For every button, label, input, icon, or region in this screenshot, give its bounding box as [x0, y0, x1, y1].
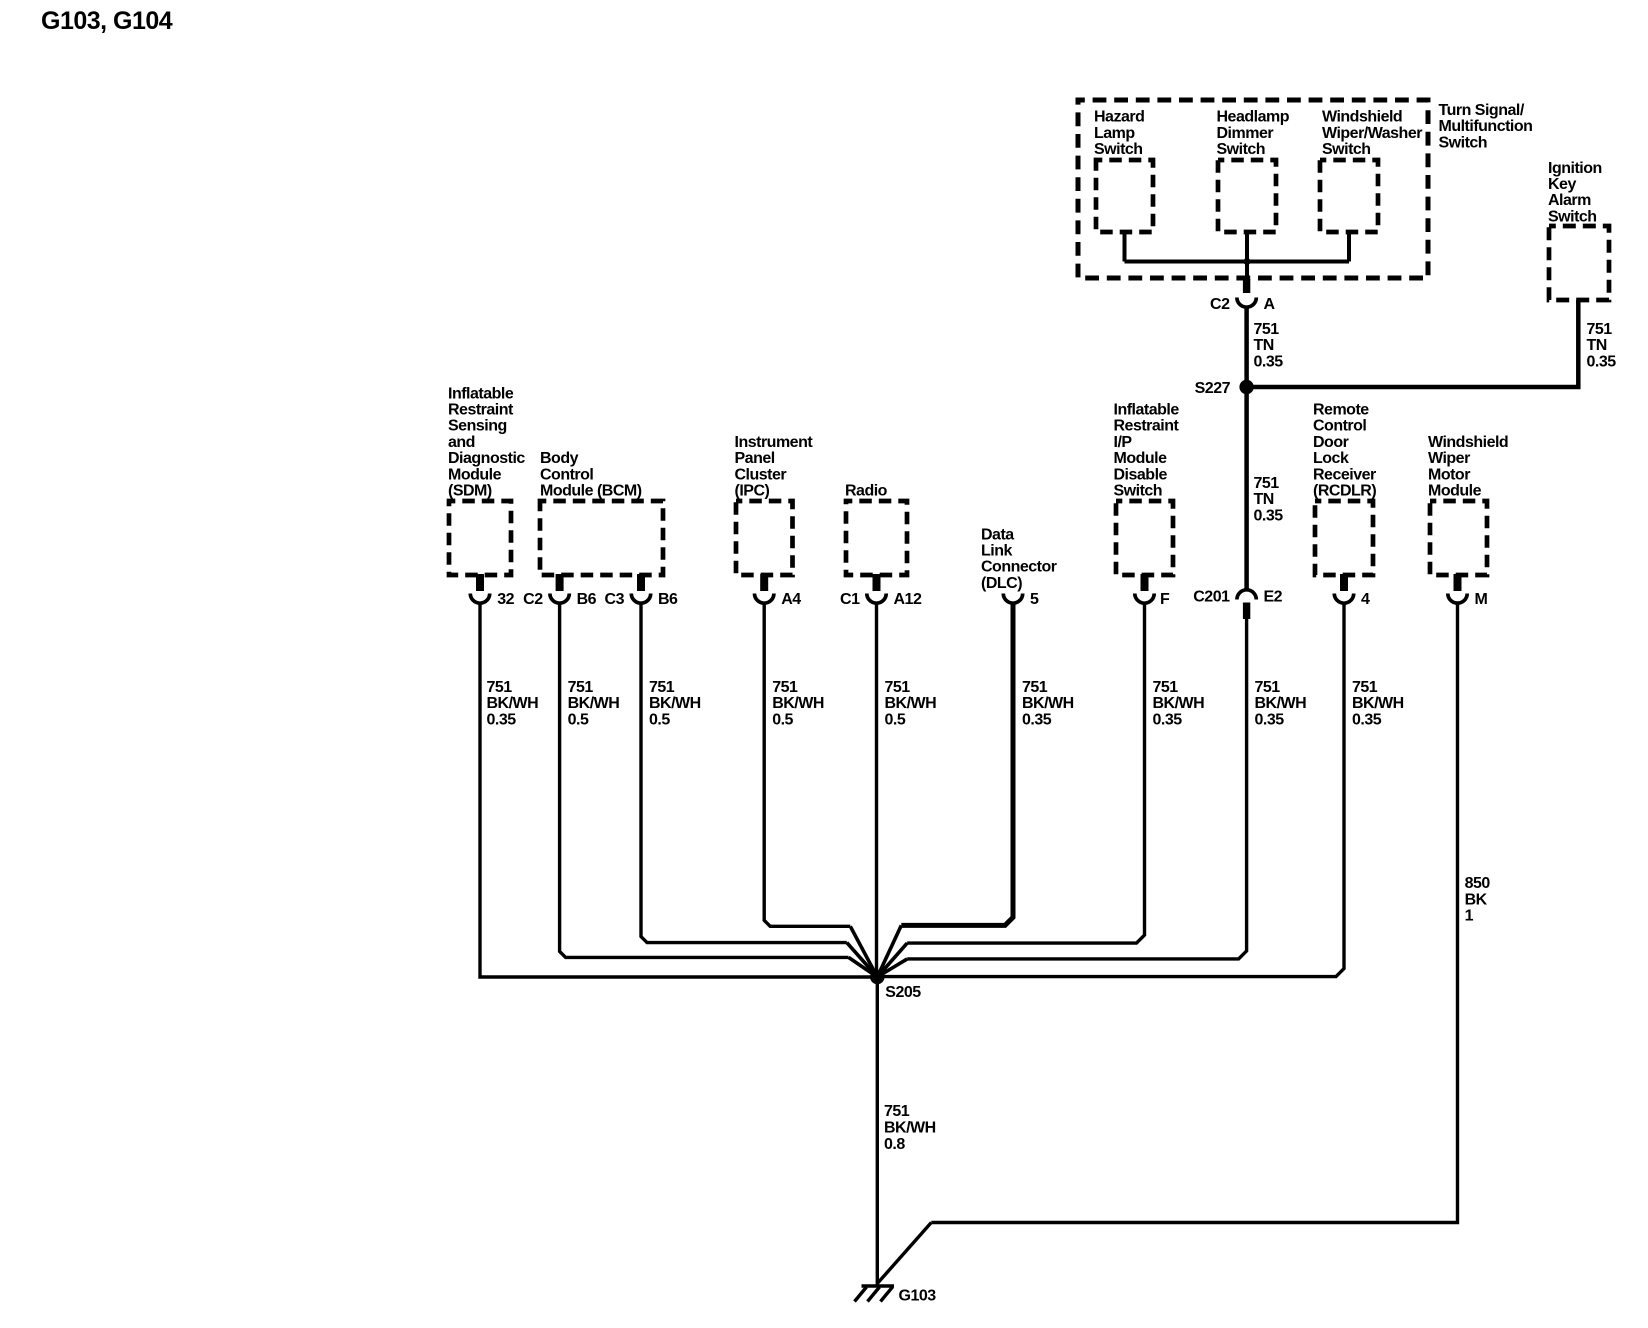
svg-text:(RCDLR): (RCDLR) [1313, 483, 1376, 500]
ground G103 hatch 2 [868, 1287, 880, 1302]
wire diagonal BCM C2 into S205 [849, 957, 878, 977]
svg-text:Key: Key [1548, 176, 1576, 193]
svg-text:Restraint: Restraint [1114, 418, 1180, 435]
svg-text:BK/WH: BK/WH [1255, 695, 1307, 712]
svg-text:Cluster: Cluster [735, 466, 787, 483]
connector C201 pin E2 stub [1243, 603, 1250, 620]
svg-text:C1: C1 [840, 591, 860, 608]
svg-text:751: 751 [1254, 475, 1280, 492]
wire hazard lamp switch to internal bus [1123, 232, 1127, 262]
svg-text:Switch: Switch [1322, 141, 1371, 158]
svg-text:Receiver: Receiver [1313, 466, 1376, 483]
svg-text:1: 1 [1465, 908, 1474, 925]
svg-text:Switch: Switch [1217, 141, 1266, 158]
svg-text:Panel: Panel [735, 450, 775, 467]
svg-text:Switch: Switch [1114, 483, 1163, 500]
switch assembly Turn Signal/Multifunction Switch box [1078, 100, 1428, 278]
svg-text:Inflatable: Inflatable [1114, 402, 1180, 419]
splice S205 [870, 970, 884, 984]
svg-text:Switch: Switch [1094, 141, 1143, 158]
svg-text:S227: S227 [1195, 380, 1231, 397]
wire 751 BK/WH Radio to S205 [875, 603, 878, 977]
svg-text:BK/WH: BK/WH [884, 1120, 936, 1137]
svg-text:Lamp: Lamp [1094, 125, 1135, 142]
svg-text:Instrument: Instrument [735, 434, 814, 451]
connector WWM pin M stub [1454, 574, 1462, 591]
svg-text:0.35: 0.35 [1255, 711, 1285, 728]
svg-text:Wiper: Wiper [1428, 450, 1470, 467]
connector BCM C2 pin B6 stub [556, 574, 564, 591]
svg-text:751: 751 [1255, 679, 1281, 696]
connector Radio C1 pin A12 stub [873, 574, 881, 591]
wire diagonal disable switch into S205 [877, 943, 907, 977]
svg-text:0.5: 0.5 [772, 711, 793, 728]
wire windshield wiper switch to internal bus [1347, 232, 1351, 262]
svg-text:0.35: 0.35 [1587, 353, 1617, 370]
svg-text:BK: BK [1465, 891, 1488, 908]
wire 751 BK/WH RCDLR to S205 [877, 603, 1344, 977]
module U1 SDM box [449, 501, 511, 575]
switch S4 Ignition Key Alarm Switch box [1549, 226, 1609, 300]
svg-text:C3: C3 [605, 591, 625, 608]
svg-text:BK/WH: BK/WH [885, 695, 937, 712]
connector IPC pin A4 cup [755, 594, 774, 604]
wire diagonal IPC into S205 [850, 926, 877, 977]
wire 751 BK/WH IPC to S205 [764, 603, 850, 926]
ground G103 hatch 3 [881, 1287, 893, 1302]
svg-text:850: 850 [1465, 875, 1491, 892]
switch S3 Windshield Wiper/Washer Switch box [1320, 160, 1378, 232]
wire S227 to ignition key alarm switch [1247, 300, 1579, 387]
wire internal bus horizontal [1125, 260, 1350, 264]
wire 751 BK/WH C201 to S205 [907, 619, 1246, 959]
svg-text:Alarm: Alarm [1548, 192, 1591, 209]
svg-text:751: 751 [1352, 679, 1378, 696]
svg-text:Link: Link [981, 543, 1012, 560]
svg-text:C201: C201 [1193, 589, 1230, 606]
svg-text:0.35: 0.35 [1254, 353, 1284, 370]
svg-text:BK/WH: BK/WH [568, 695, 620, 712]
svg-text:751: 751 [649, 679, 675, 696]
svg-text:Door: Door [1313, 434, 1349, 451]
splice S227 [1239, 380, 1253, 394]
wire 751 TN from C2-A to S227 [1244, 306, 1249, 387]
svg-text:G103, G104: G103, G104 [41, 7, 173, 35]
svg-text:Motor: Motor [1428, 466, 1470, 483]
svg-text:0.35: 0.35 [1022, 711, 1052, 728]
switch S2 Headlamp Dimmer Switch box [1218, 160, 1276, 232]
svg-text:A: A [1264, 296, 1276, 313]
wire 751 BK/WH BCM C2-B6 to S205 [560, 603, 849, 957]
svg-text:751: 751 [487, 679, 513, 696]
junction internal bus [1243, 258, 1250, 265]
connector IR disable switch pin F cup [1135, 594, 1154, 604]
svg-text:Headlamp: Headlamp [1217, 109, 1290, 126]
svg-text:751: 751 [1022, 679, 1048, 696]
svg-text:Lock: Lock [1313, 450, 1349, 467]
svg-text:A12: A12 [894, 591, 922, 608]
svg-text:S205: S205 [885, 984, 921, 1001]
svg-text:32: 32 [497, 591, 514, 608]
connector C2 pin A stub [1243, 279, 1250, 293]
svg-text:5: 5 [1030, 591, 1039, 608]
svg-text:BK/WH: BK/WH [1022, 695, 1074, 712]
wire 751 BK/WH disable switch to S205 [907, 603, 1144, 943]
svg-text:B6: B6 [658, 591, 678, 608]
svg-text:Remote: Remote [1313, 402, 1369, 419]
svg-text:4: 4 [1361, 591, 1370, 608]
svg-text:751: 751 [1587, 321, 1613, 338]
svg-text:B6: B6 [577, 591, 597, 608]
svg-text:0.35: 0.35 [1254, 507, 1284, 524]
svg-text:(SDM): (SDM) [448, 483, 492, 500]
svg-text:751: 751 [1254, 321, 1280, 338]
svg-text:Radio: Radio [845, 483, 888, 500]
svg-text:0.35: 0.35 [1352, 711, 1382, 728]
svg-text:Control: Control [1313, 418, 1366, 435]
svg-text:and: and [448, 434, 475, 451]
svg-text:TN: TN [1254, 491, 1274, 508]
module U4 Radio box [846, 501, 907, 575]
wire 751 BK/WH S205 to G103 [876, 977, 879, 1286]
svg-text:Dimmer: Dimmer [1217, 125, 1274, 142]
switch S1 Hazard Lamp Switch box [1096, 160, 1153, 232]
svg-text:Switch: Switch [1548, 208, 1597, 225]
connector Radio C1 pin A12 cup [867, 594, 886, 604]
connector BCM C3 pin B6 stub [637, 574, 645, 591]
connector DLC pin 5 cup [1003, 594, 1022, 604]
svg-text:E2: E2 [1264, 589, 1283, 606]
wire headlamp dimmer switch through junction to pin A [1245, 232, 1249, 281]
ground G103 hatch 1 [855, 1287, 867, 1302]
ground G103 bar [862, 1284, 895, 1287]
connector IR disable switch pin F stub [1141, 574, 1149, 591]
module U2 BCM box [540, 501, 663, 575]
switch S5 IR I/P Module Disable Switch box [1116, 501, 1173, 575]
module U5 RCDLR box [1315, 501, 1373, 575]
svg-text:Module (BCM): Module (BCM) [540, 483, 642, 500]
connector SDM pin 32 stub [476, 574, 484, 591]
svg-text:Wiper/Washer: Wiper/Washer [1322, 125, 1422, 142]
wire diagonal DLC into S205 [877, 925, 901, 977]
svg-text:Ignition: Ignition [1548, 160, 1602, 177]
wire 850 BK WWM to ground [931, 603, 1457, 1223]
svg-text:C2: C2 [523, 591, 543, 608]
svg-text:Windshield: Windshield [1322, 109, 1402, 126]
connector BCM C3 pin B6 cup [631, 594, 650, 604]
svg-text:Data: Data [981, 526, 1014, 543]
svg-text:0.5: 0.5 [649, 711, 670, 728]
svg-text:0.35: 0.35 [1153, 711, 1183, 728]
svg-text:BK/WH: BK/WH [487, 695, 539, 712]
wire diagonal BCM C3 into S205 [847, 943, 878, 977]
connector C2 pin A cup [1237, 298, 1256, 308]
connector BCM C2 pin B6 cup [550, 594, 569, 604]
svg-text:BK/WH: BK/WH [1352, 695, 1404, 712]
svg-text:M: M [1475, 591, 1488, 608]
svg-text:Body: Body [540, 450, 579, 467]
svg-text:0.35: 0.35 [487, 711, 517, 728]
svg-text:Restraint: Restraint [448, 402, 514, 419]
svg-text:(DLC): (DLC) [981, 575, 1022, 592]
svg-text:Multifunction: Multifunction [1439, 118, 1533, 135]
svg-text:Switch: Switch [1439, 134, 1488, 151]
svg-text:Module: Module [1114, 450, 1168, 467]
connector RCDLR pin 4 cup [1334, 594, 1353, 604]
svg-text:BK/WH: BK/WH [772, 695, 824, 712]
svg-text:Hazard: Hazard [1094, 109, 1144, 126]
svg-text:751: 751 [884, 1103, 910, 1120]
svg-text:BK/WH: BK/WH [1153, 695, 1205, 712]
svg-text:0.5: 0.5 [885, 711, 906, 728]
module U3 IPC box [736, 501, 793, 575]
wire diagonal 850 BK into G103 [877, 1223, 931, 1284]
svg-text:(IPC): (IPC) [735, 483, 770, 500]
svg-text:Connector: Connector [981, 559, 1057, 576]
svg-text:Turn Signal/: Turn Signal/ [1439, 102, 1525, 119]
svg-text:Diagnostic: Diagnostic [448, 450, 525, 467]
connector C201 pin E2 cup [1237, 590, 1256, 600]
connector RCDLR pin 4 stub [1340, 574, 1348, 591]
wire diagonal C201 into S205 [877, 959, 907, 977]
svg-text:Module: Module [1428, 483, 1482, 500]
connector SDM pin 32 cup [470, 594, 489, 604]
svg-text:G103: G103 [899, 1288, 937, 1305]
svg-text:Disable: Disable [1114, 466, 1168, 483]
svg-text:751: 751 [885, 679, 911, 696]
svg-text:TN: TN [1254, 337, 1274, 354]
wire 751 TN from S227 to C201 [1244, 394, 1249, 589]
svg-text:F: F [1160, 591, 1170, 608]
svg-text:Module: Module [448, 466, 502, 483]
svg-text:751: 751 [772, 679, 798, 696]
svg-text:C2: C2 [1210, 296, 1230, 313]
svg-text:Sensing: Sensing [448, 418, 507, 435]
module U6 Windshield Wiper Motor Module box [1430, 501, 1487, 575]
svg-text:A4: A4 [781, 591, 801, 608]
connector IPC pin A4 stub [760, 574, 768, 591]
svg-text:0.8: 0.8 [884, 1136, 905, 1153]
wire 751 BK/WH BCM C3-B6 to S205 [641, 603, 847, 943]
svg-text:751: 751 [1153, 679, 1179, 696]
svg-text:Inflatable: Inflatable [448, 385, 514, 402]
wire 751 BK/WH SDM to S205 [480, 603, 877, 977]
svg-text:Control: Control [540, 466, 593, 483]
svg-text:Windshield: Windshield [1428, 434, 1508, 451]
wire 751 BK/WH DLC to S205 [901, 603, 1013, 925]
svg-text:751: 751 [568, 679, 594, 696]
svg-text:TN: TN [1587, 337, 1607, 354]
svg-text:BK/WH: BK/WH [649, 695, 701, 712]
svg-text:I/P: I/P [1114, 434, 1133, 451]
svg-text:0.5: 0.5 [568, 711, 589, 728]
connector WWM pin M cup [1448, 594, 1467, 604]
